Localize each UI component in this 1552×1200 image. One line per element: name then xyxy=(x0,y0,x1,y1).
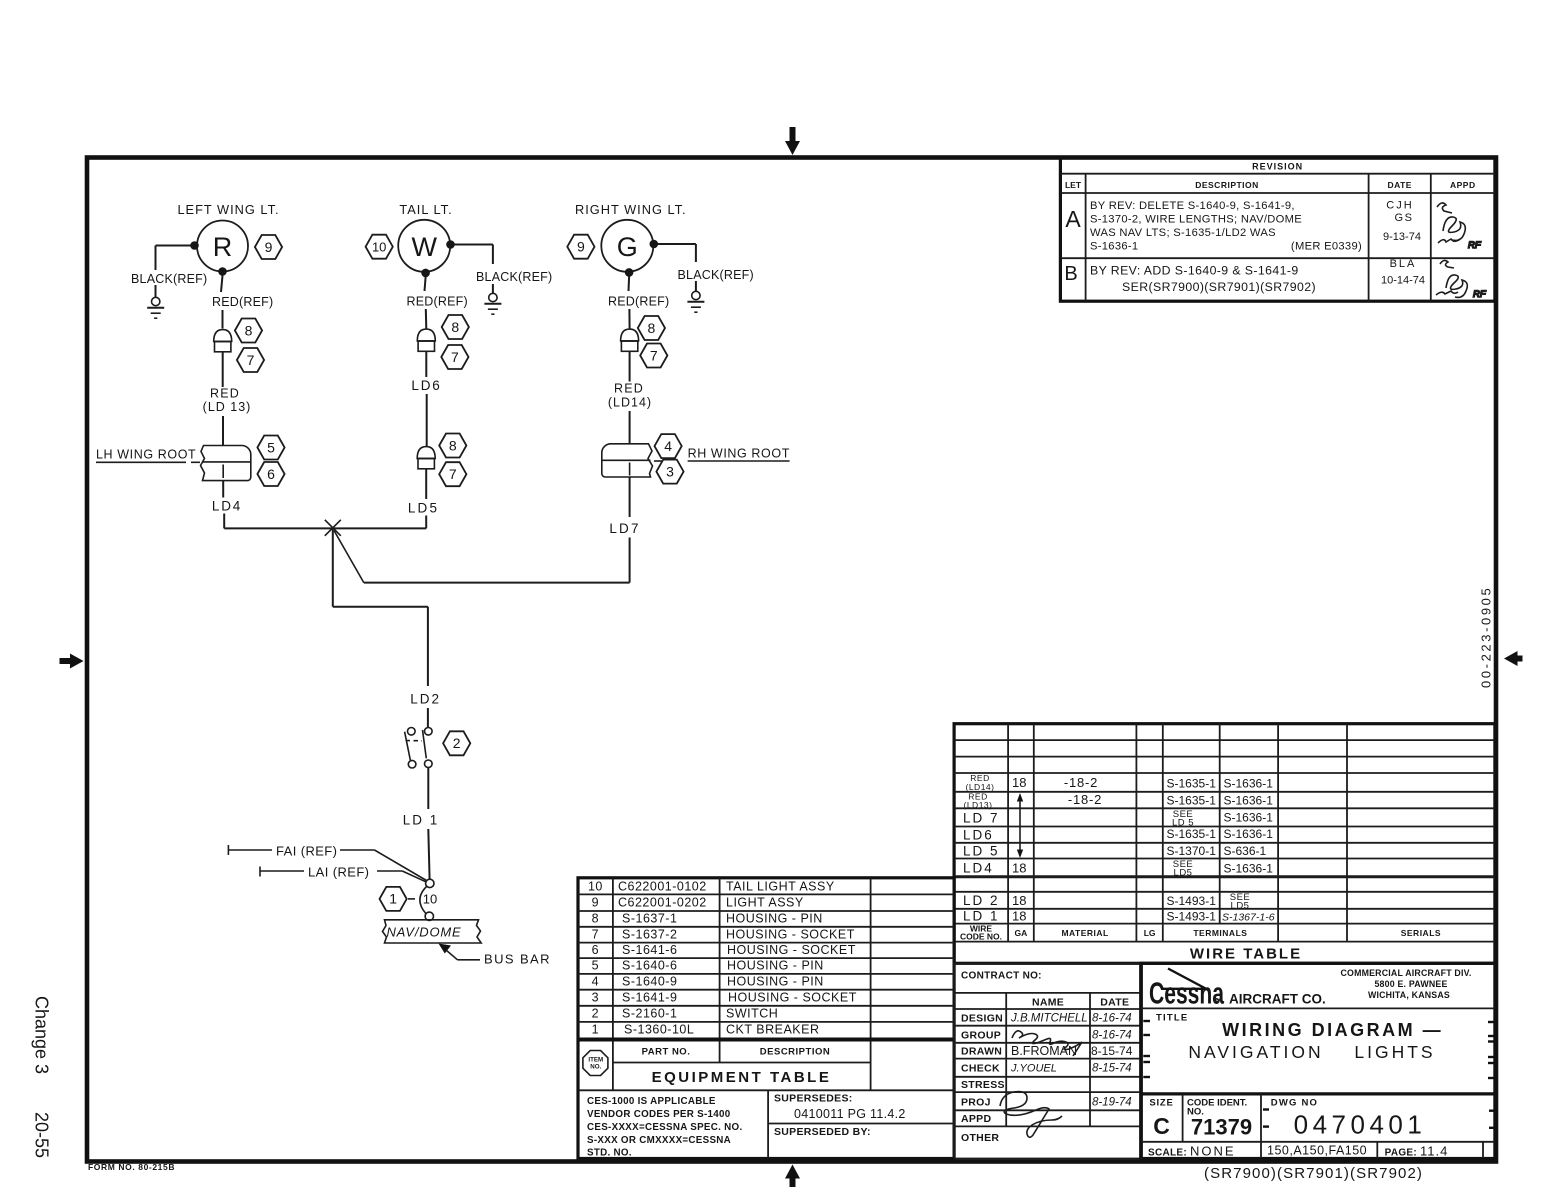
svg-text:SUPERSEDED BY:: SUPERSEDED BY: xyxy=(774,1126,871,1138)
svg-text:RED(REF): RED(REF) xyxy=(407,295,468,309)
svg-text:A: A xyxy=(1065,206,1081,232)
svg-text:8: 8 xyxy=(592,912,599,926)
svg-text:LD6: LD6 xyxy=(411,378,441,393)
svg-text:RED: RED xyxy=(210,387,240,401)
svg-text:CES-1000 IS APPLICABLE: CES-1000 IS APPLICABLE xyxy=(587,1096,716,1107)
svg-text:10: 10 xyxy=(588,880,603,894)
svg-text:CJH: CJH xyxy=(1386,200,1413,212)
svg-text:4: 4 xyxy=(664,438,672,454)
svg-text:BLA: BLA xyxy=(1390,258,1417,270)
svg-text:DATE: DATE xyxy=(1100,997,1129,1009)
svg-text:S-636-1: S-636-1 xyxy=(1224,844,1267,858)
svg-text:S-1360-10L: S-1360-10L xyxy=(624,1023,694,1037)
svg-text:C: C xyxy=(1153,1113,1170,1139)
svg-text:S-1641-9: S-1641-9 xyxy=(622,991,677,1005)
svg-text:S-1370-2, WIRE LENGTHS; NAV/DO: S-1370-2, WIRE LENGTHS; NAV/DOME xyxy=(1090,214,1302,226)
svg-text:BUS BAR: BUS BAR xyxy=(484,952,551,967)
svg-text:DWG NO: DWG NO xyxy=(1271,1098,1318,1109)
svg-text:WIRE TABLE: WIRE TABLE xyxy=(1190,946,1302,963)
svg-text:LD5: LD5 xyxy=(408,501,439,516)
svg-text:8: 8 xyxy=(449,437,457,453)
svg-text:RH WING ROOT: RH WING ROOT xyxy=(688,447,790,461)
svg-text:NAME: NAME xyxy=(1032,997,1064,1009)
svg-text:S-1635-1: S-1635-1 xyxy=(1167,777,1217,791)
svg-text:LD 7: LD 7 xyxy=(963,811,1000,826)
svg-text:LEFT WING LT.: LEFT WING LT. xyxy=(177,202,279,217)
svg-text:7: 7 xyxy=(650,347,658,363)
svg-text:REVISION: REVISION xyxy=(1252,162,1303,172)
svg-text:S-1636-1: S-1636-1 xyxy=(1224,827,1274,841)
svg-text:1: 1 xyxy=(592,1023,599,1037)
svg-text:J.YOUEL: J.YOUEL xyxy=(1010,1063,1057,1075)
svg-text:(LD 13): (LD 13) xyxy=(203,400,252,414)
svg-text:LD5: LD5 xyxy=(1231,901,1250,912)
svg-text:150,A150,FA150: 150,A150,FA150 xyxy=(1267,1144,1367,1158)
svg-text:3: 3 xyxy=(592,991,599,1005)
svg-text:8-16-74: 8-16-74 xyxy=(1092,1030,1132,1042)
svg-text:2: 2 xyxy=(592,1007,599,1021)
svg-text:OTHER: OTHER xyxy=(961,1132,999,1144)
svg-text:PAGE:: PAGE: xyxy=(1385,1148,1417,1159)
svg-text:J.B.MITCHELL: J.B.MITCHELL xyxy=(1010,1013,1088,1025)
svg-text:TAIL LT.: TAIL LT. xyxy=(399,202,452,217)
svg-text:TAIL LIGHT ASSY: TAIL LIGHT ASSY xyxy=(726,880,835,894)
svg-text:LD5: LD5 xyxy=(1174,868,1193,879)
svg-text:S-1636-1: S-1636-1 xyxy=(1090,241,1138,253)
svg-text:(MER E0339): (MER E0339) xyxy=(1291,241,1362,253)
svg-text:18: 18 xyxy=(1012,909,1026,924)
svg-text:FORM NO. 80-215B: FORM NO. 80-215B xyxy=(88,1162,175,1172)
svg-text:71379: 71379 xyxy=(1191,1115,1252,1140)
svg-text:0470401: 0470401 xyxy=(1294,1110,1427,1140)
svg-text:(LD14): (LD14) xyxy=(966,782,995,792)
svg-text:5: 5 xyxy=(267,439,275,455)
svg-text:MATERIAL: MATERIAL xyxy=(1061,928,1108,938)
svg-text:7: 7 xyxy=(592,928,599,942)
svg-text:BLACK(REF): BLACK(REF) xyxy=(476,270,552,284)
svg-text:S-1636-1: S-1636-1 xyxy=(1224,811,1274,825)
svg-text:00-223-0905: 00-223-0905 xyxy=(1479,586,1494,688)
svg-text:RED(REF): RED(REF) xyxy=(608,295,669,309)
svg-text:G: G xyxy=(617,232,638,262)
svg-text:LIGHTS: LIGHTS xyxy=(1354,1042,1435,1062)
svg-text:FAI (REF): FAI (REF) xyxy=(276,844,337,859)
svg-text:S-XXX OR CMXXXX=CESSNA: S-XXX OR CMXXXX=CESSNA xyxy=(587,1135,731,1146)
svg-text:Cessna: Cessna xyxy=(1149,975,1224,1010)
svg-text:LAI (REF): LAI (REF) xyxy=(308,865,369,880)
svg-text:18: 18 xyxy=(1012,775,1026,790)
svg-text:18: 18 xyxy=(1012,893,1026,908)
svg-text:BY REV: ADD S-1640-9 & S-1641-: BY REV: ADD S-1640-9 & S-1641-9 xyxy=(1090,264,1299,278)
svg-text:APPD: APPD xyxy=(961,1113,991,1125)
svg-text:NAVIGATION: NAVIGATION xyxy=(1188,1042,1323,1062)
svg-text:LD4: LD4 xyxy=(212,499,242,514)
svg-text:DESCRIPTION: DESCRIPTION xyxy=(1195,180,1259,190)
svg-text:S-1370-1: S-1370-1 xyxy=(1167,844,1217,858)
svg-text:9-13-74: 9-13-74 xyxy=(1383,231,1421,243)
svg-text:DRAWN: DRAWN xyxy=(961,1046,1002,1058)
svg-text:S-1636-1: S-1636-1 xyxy=(1224,862,1274,876)
svg-text:STD. NO.: STD. NO. xyxy=(587,1148,632,1159)
svg-text:ITEM: ITEM xyxy=(588,1057,603,1064)
svg-text:18: 18 xyxy=(1012,861,1026,876)
svg-text:LD 2: LD 2 xyxy=(963,893,1000,908)
svg-text:HOUSING - SOCKET: HOUSING - SOCKET xyxy=(726,928,855,942)
svg-text:9: 9 xyxy=(592,896,599,910)
svg-text:AIRCRAFT CO.: AIRCRAFT CO. xyxy=(1229,992,1326,1007)
svg-text:S-1640-9: S-1640-9 xyxy=(622,975,677,989)
svg-text:PART NO.: PART NO. xyxy=(642,1047,691,1058)
svg-text:10: 10 xyxy=(372,240,386,255)
svg-text:10: 10 xyxy=(423,892,437,907)
svg-text:APPD: APPD xyxy=(1450,180,1476,190)
svg-text:8: 8 xyxy=(245,322,253,338)
svg-text:CONTRACT NO:: CONTRACT NO: xyxy=(961,971,1042,982)
svg-text:SERIALS: SERIALS xyxy=(1401,928,1441,938)
svg-text:7: 7 xyxy=(449,466,457,482)
svg-text:HOUSING - PIN: HOUSING - PIN xyxy=(726,912,823,926)
svg-text:8: 8 xyxy=(648,320,656,336)
svg-text:SWITCH: SWITCH xyxy=(726,1007,778,1021)
svg-text:C622001-0202: C622001-0202 xyxy=(618,896,707,910)
svg-text:NONE: NONE xyxy=(1190,1144,1236,1159)
svg-text:1: 1 xyxy=(389,891,397,907)
svg-text:-18-2: -18-2 xyxy=(1068,792,1102,807)
svg-text:4: 4 xyxy=(592,975,599,989)
svg-text:5: 5 xyxy=(592,959,599,973)
svg-text:W: W xyxy=(411,232,437,262)
svg-text:LD 1: LD 1 xyxy=(403,813,440,828)
svg-text:8-16-74: 8-16-74 xyxy=(1092,1013,1132,1025)
svg-text:CKT BREAKER: CKT BREAKER xyxy=(726,1023,820,1037)
svg-text:2: 2 xyxy=(453,735,461,751)
svg-text:S-1637-1: S-1637-1 xyxy=(622,912,677,926)
svg-text:7: 7 xyxy=(451,349,459,365)
svg-text:DESIGN: DESIGN xyxy=(961,1013,1003,1025)
svg-text:8-19-74: 8-19-74 xyxy=(1092,1097,1132,1109)
svg-text:STRESS: STRESS xyxy=(961,1079,1005,1091)
svg-text:S-2160-1: S-2160-1 xyxy=(622,1007,677,1021)
svg-text:TERMINALS: TERMINALS xyxy=(1193,928,1247,938)
svg-text:6: 6 xyxy=(592,943,599,957)
svg-text:LIGHT ASSY: LIGHT ASSY xyxy=(726,896,804,910)
svg-text:VENDOR CODES PER S-1400: VENDOR CODES PER S-1400 xyxy=(587,1109,731,1120)
svg-text:9: 9 xyxy=(577,239,585,255)
svg-text:BY REV: DELETE S-1640-9, S-164: BY REV: DELETE S-1640-9, S-1641-9, xyxy=(1090,200,1295,212)
svg-text:S-1635-1: S-1635-1 xyxy=(1167,827,1217,841)
svg-text:LET: LET xyxy=(1065,180,1082,190)
svg-text:S-1635-1: S-1635-1 xyxy=(1167,794,1217,808)
svg-text:S-1637-2: S-1637-2 xyxy=(622,928,677,942)
svg-text:RF: RF xyxy=(1473,289,1487,300)
svg-text:LD7: LD7 xyxy=(609,521,640,536)
svg-text:(LD14): (LD14) xyxy=(608,396,652,410)
svg-text:COMMERCIAL AIRCRAFT DIV.: COMMERCIAL AIRCRAFT DIV. xyxy=(1340,968,1471,978)
svg-text:LD6: LD6 xyxy=(963,828,994,843)
svg-text:LD 1: LD 1 xyxy=(963,909,1000,924)
svg-text:EQUIPMENT TABLE: EQUIPMENT TABLE xyxy=(652,1069,832,1086)
svg-text:LH WING ROOT: LH WING ROOT xyxy=(96,448,196,462)
svg-text:B: B xyxy=(1064,263,1077,285)
svg-text:0410011 PG 11.4.2: 0410011 PG 11.4.2 xyxy=(794,1107,906,1121)
svg-text:SER(SR7900)(SR7901)(SR7902): SER(SR7900)(SR7901)(SR7902) xyxy=(1122,280,1316,294)
svg-text:GA: GA xyxy=(1015,928,1028,938)
svg-text:HOUSING - SOCKET: HOUSING - SOCKET xyxy=(728,991,857,1005)
svg-text:RED: RED xyxy=(614,382,644,396)
svg-text:9: 9 xyxy=(265,239,273,255)
svg-text:WAS NAV LTS; S-1635-1/LD2 WAS: WAS NAV LTS; S-1635-1/LD2 WAS xyxy=(1090,227,1276,239)
svg-text:S-1367-1-6: S-1367-1-6 xyxy=(1222,912,1275,924)
svg-text:R: R xyxy=(213,232,233,262)
svg-text:(SR7900)(SR7901)(SR7902): (SR7900)(SR7901)(SR7902) xyxy=(1204,1165,1423,1182)
svg-text:S-1493-1: S-1493-1 xyxy=(1167,894,1217,908)
svg-text:WICHITA, KANSAS: WICHITA, KANSAS xyxy=(1368,990,1450,1000)
svg-text:S-1636-1: S-1636-1 xyxy=(1224,794,1274,808)
svg-text:NO.: NO. xyxy=(590,1064,601,1071)
svg-text:LD4: LD4 xyxy=(963,861,994,876)
svg-text:(LD13): (LD13) xyxy=(964,800,993,810)
svg-text:HOUSING - PIN: HOUSING - PIN xyxy=(727,975,824,989)
svg-text:8-15-74: 8-15-74 xyxy=(1091,1044,1133,1058)
svg-text:CHECK: CHECK xyxy=(961,1063,1000,1075)
svg-text:TITLE: TITLE xyxy=(1156,1013,1188,1024)
svg-text:GROUP: GROUP xyxy=(961,1030,1001,1042)
svg-text:HOUSING - PIN: HOUSING - PIN xyxy=(727,959,824,973)
svg-text:LD 5: LD 5 xyxy=(963,844,1000,859)
svg-text:S-1641-6: S-1641-6 xyxy=(622,943,677,957)
svg-text:LG: LG xyxy=(1144,928,1156,938)
svg-text:S-1640-6: S-1640-6 xyxy=(622,959,677,973)
svg-text:7: 7 xyxy=(247,352,255,368)
svg-text:3: 3 xyxy=(666,463,674,479)
svg-text:10-14-74: 10-14-74 xyxy=(1381,275,1425,287)
svg-text:CODE NO.: CODE NO. xyxy=(960,932,1002,942)
svg-text:DATE: DATE xyxy=(1387,180,1412,190)
svg-text:NAV/DOME: NAV/DOME xyxy=(386,925,461,940)
svg-text:SCALE:: SCALE: xyxy=(1148,1148,1187,1159)
svg-text:8-15-74: 8-15-74 xyxy=(1092,1063,1132,1075)
svg-text:6: 6 xyxy=(267,466,275,482)
svg-text:BLACK(REF): BLACK(REF) xyxy=(678,268,754,282)
svg-text:-18-2: -18-2 xyxy=(1064,775,1098,790)
svg-text:11.4: 11.4 xyxy=(1420,1144,1448,1159)
svg-text:C622001-0102: C622001-0102 xyxy=(618,880,707,894)
svg-text:LD2: LD2 xyxy=(410,692,441,707)
svg-text:CES-XXXX=CESSNA SPEC. NO.: CES-XXXX=CESSNA SPEC. NO. xyxy=(587,1122,743,1133)
svg-text:S-1493-1: S-1493-1 xyxy=(1167,910,1217,924)
svg-text:RF: RF xyxy=(1468,240,1482,251)
svg-text:SIZE: SIZE xyxy=(1149,1098,1173,1109)
svg-text:S-1636-1: S-1636-1 xyxy=(1224,777,1274,791)
svg-text:BLACK(REF): BLACK(REF) xyxy=(131,272,207,286)
svg-text:5800 E. PAWNEE: 5800 E. PAWNEE xyxy=(1374,979,1447,989)
svg-text:SUPERSEDES:: SUPERSEDES: xyxy=(774,1093,853,1105)
svg-text:Change 3: Change 3 xyxy=(32,996,52,1074)
svg-text:RIGHT WING LT.: RIGHT WING LT. xyxy=(575,202,687,217)
svg-text:HOUSING - SOCKET: HOUSING - SOCKET xyxy=(727,943,856,957)
svg-text:8: 8 xyxy=(451,319,459,335)
svg-text:GS: GS xyxy=(1395,212,1414,224)
svg-text:WIRING DIAGRAM —: WIRING DIAGRAM — xyxy=(1222,1020,1443,1040)
svg-text:RED(REF): RED(REF) xyxy=(212,295,273,309)
svg-text:PROJ: PROJ xyxy=(961,1097,991,1109)
svg-text:DESCRIPTION: DESCRIPTION xyxy=(760,1047,830,1058)
svg-text:20-55: 20-55 xyxy=(32,1112,52,1158)
